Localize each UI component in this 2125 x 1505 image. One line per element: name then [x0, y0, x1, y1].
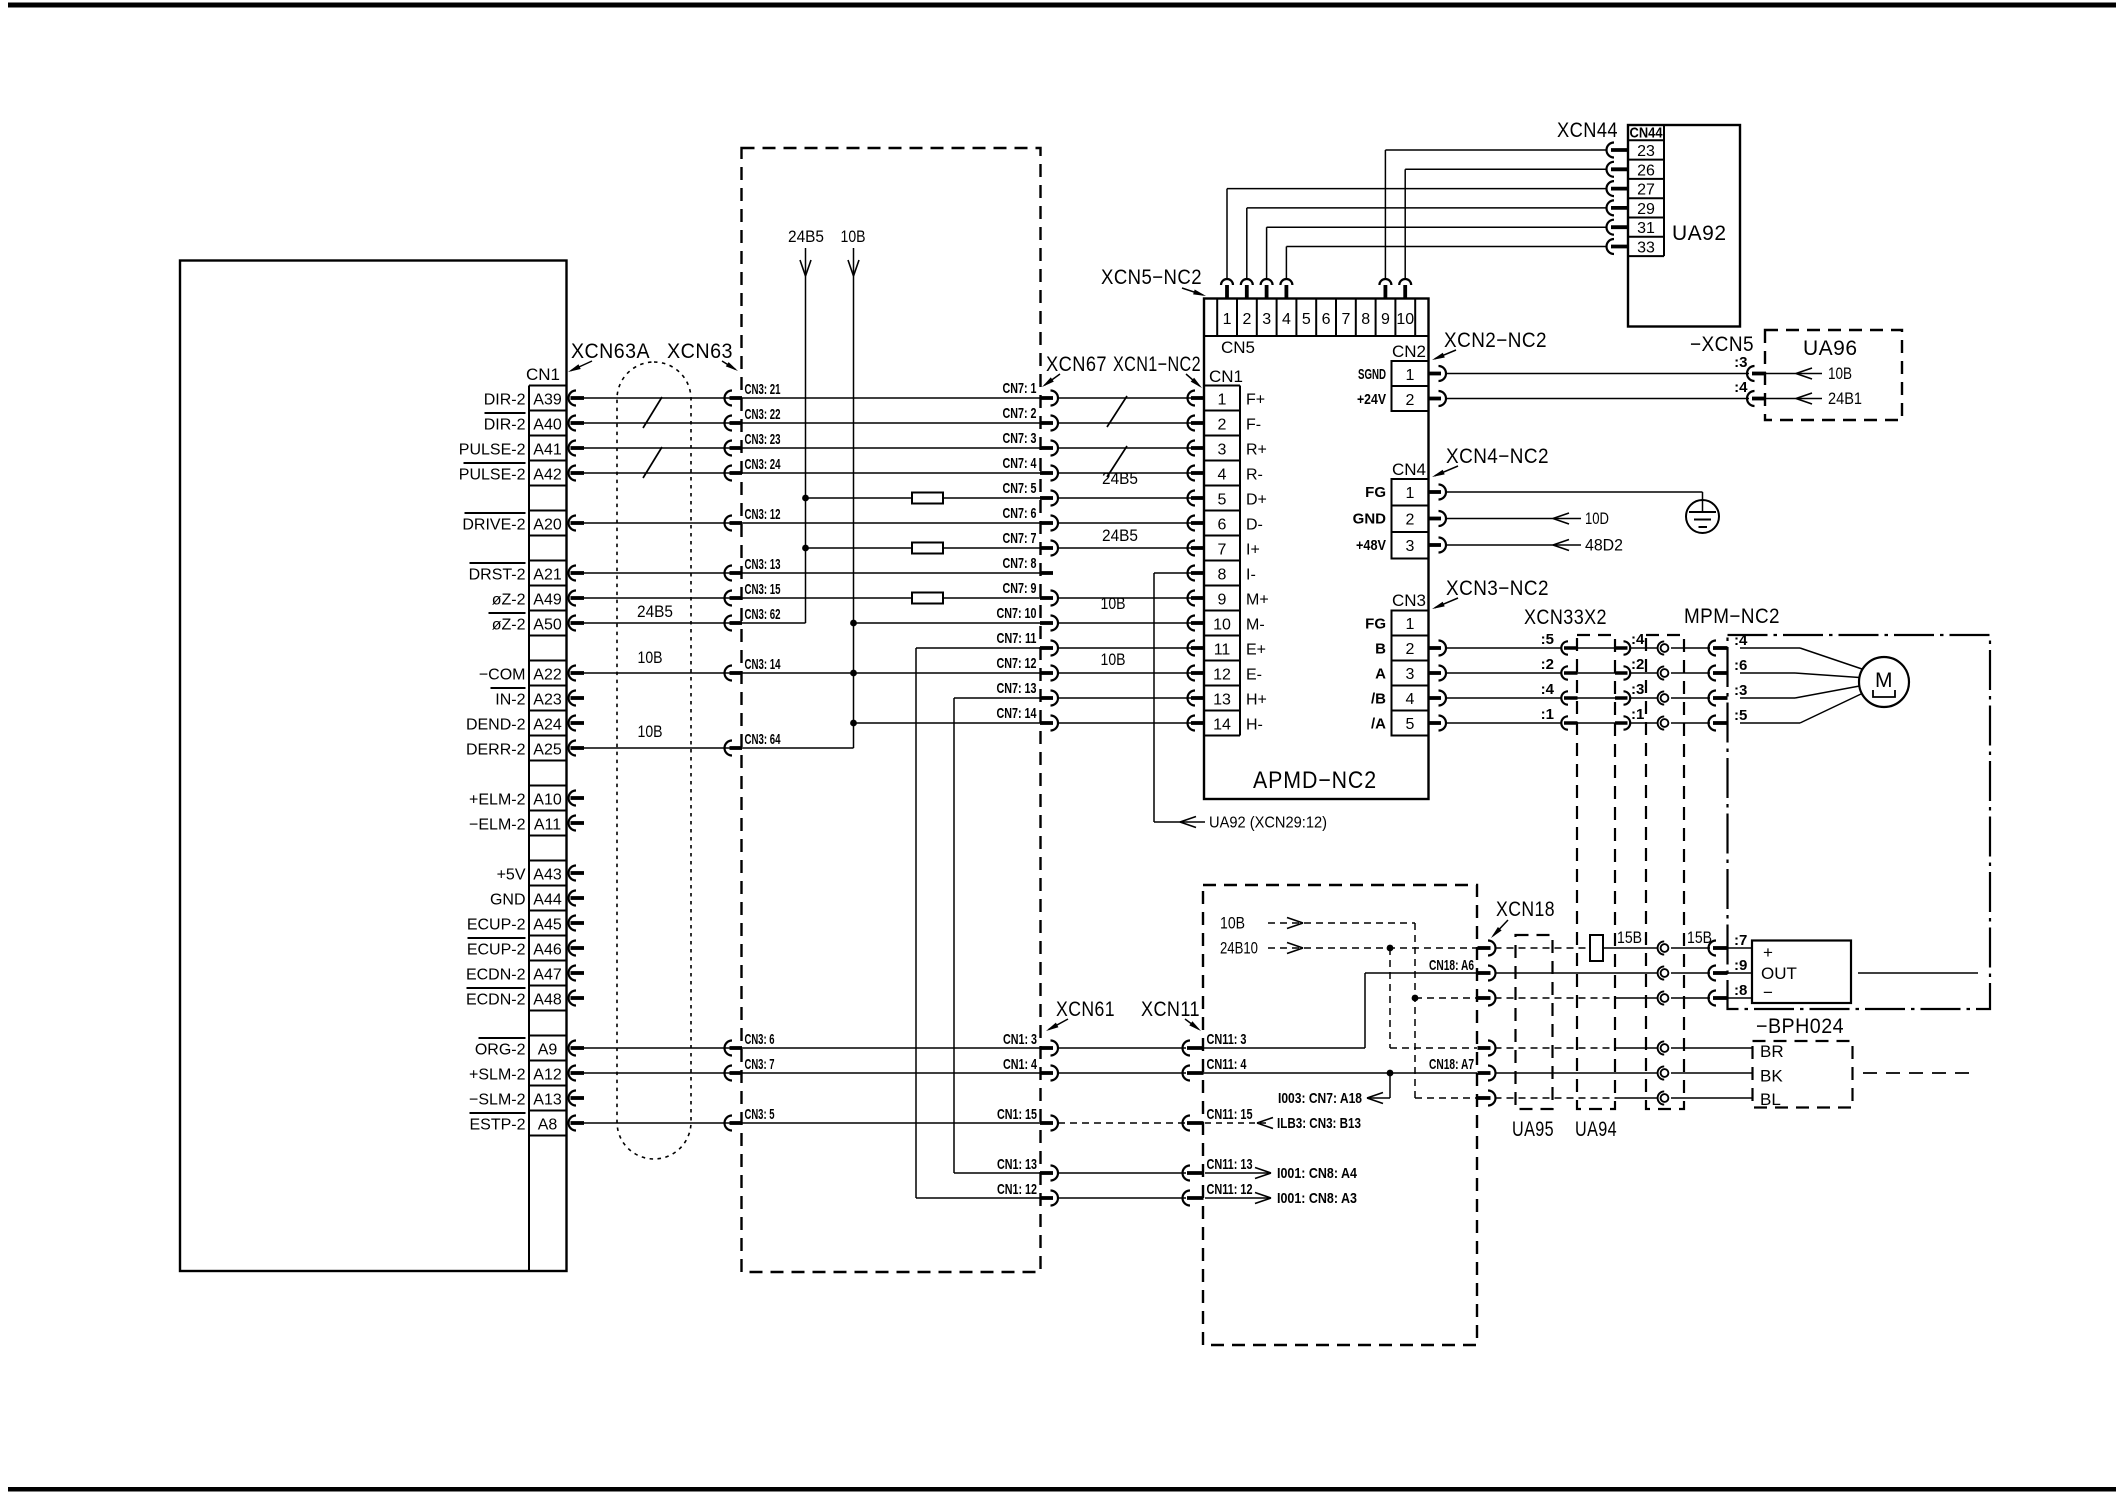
svg-text:M: M [1875, 669, 1893, 692]
svg-text:A42: A42 [533, 467, 562, 484]
svg-text:SGND: SGND [1358, 366, 1386, 383]
svg-text::5: :5 [1541, 631, 1554, 648]
svg-text:6: 6 [1218, 517, 1227, 534]
svg-text:A20: A20 [533, 517, 562, 534]
svg-text::1: :1 [1631, 706, 1644, 723]
svg-text:−XCN5: −XCN5 [1690, 333, 1754, 356]
svg-text:CN11: 15: CN11: 15 [1207, 1106, 1253, 1123]
svg-text:/B: /B [1371, 691, 1386, 708]
svg-text:CN3: 13: CN3: 13 [745, 556, 781, 573]
svg-text:DRST-2: DRST-2 [469, 567, 526, 584]
svg-text:10B: 10B [1220, 915, 1245, 933]
svg-text::4: :4 [1541, 681, 1555, 698]
svg-text:GND: GND [490, 892, 526, 909]
svg-text:24B1: 24B1 [1828, 390, 1862, 408]
svg-text:CN7: 12: CN7: 12 [997, 655, 1037, 672]
svg-text:CN7: 2: CN7: 2 [1003, 405, 1037, 422]
svg-text:A39: A39 [533, 392, 562, 409]
svg-text:10: 10 [1396, 311, 1414, 328]
svg-text:10B: 10B [1101, 595, 1126, 613]
svg-text:4: 4 [1406, 691, 1415, 708]
svg-text:GND: GND [1353, 511, 1387, 528]
svg-text::3: :3 [1734, 354, 1747, 371]
svg-text::3: :3 [1734, 682, 1747, 699]
svg-text:CN7: 5: CN7: 5 [1003, 480, 1037, 497]
svg-text:+24V: +24V [1357, 391, 1386, 408]
svg-text:2: 2 [1242, 311, 1251, 328]
svg-text:1: 1 [1218, 392, 1227, 409]
svg-text:9: 9 [1381, 311, 1390, 328]
svg-text:−BPH024: −BPH024 [1756, 1015, 1844, 1038]
svg-text:CN1: 15: CN1: 15 [997, 1106, 1037, 1123]
svg-text:1: 1 [1406, 367, 1415, 384]
svg-text:A12: A12 [533, 1067, 562, 1084]
svg-text:CN1: 12: CN1: 12 [997, 1181, 1037, 1198]
svg-text:2: 2 [1406, 392, 1415, 409]
svg-text:3: 3 [1406, 538, 1415, 555]
svg-text:H-: H- [1246, 717, 1263, 734]
svg-text:BR: BR [1760, 1042, 1784, 1061]
svg-text:M+: M+ [1246, 592, 1269, 609]
svg-text:M-: M- [1246, 617, 1265, 634]
svg-text:CN3: 7: CN3: 7 [745, 1056, 775, 1073]
svg-text:CN3: 62: CN3: 62 [745, 606, 781, 623]
svg-text:CN7: 8: CN7: 8 [1003, 555, 1037, 572]
svg-text:APMD−NC2: APMD−NC2 [1253, 767, 1377, 794]
svg-text::9: :9 [1734, 957, 1747, 974]
svg-text:ECDN-2: ECDN-2 [466, 967, 526, 984]
svg-text:CN7: 6: CN7: 6 [1003, 505, 1037, 522]
svg-text:CN1: 3: CN1: 3 [1003, 1031, 1037, 1048]
svg-text:UA95: UA95 [1512, 1118, 1554, 1141]
svg-text:A43: A43 [533, 867, 562, 884]
svg-text:H+: H+ [1246, 692, 1267, 709]
svg-text:4: 4 [1218, 467, 1227, 484]
svg-text::1: :1 [1541, 706, 1554, 723]
svg-text:CN3: 6: CN3: 6 [745, 1031, 775, 1048]
svg-text:CN3: 12: CN3: 12 [745, 506, 781, 523]
svg-text:A40: A40 [533, 417, 562, 434]
svg-text:CN1: 4: CN1: 4 [1003, 1056, 1037, 1073]
svg-text:10B: 10B [1828, 365, 1852, 383]
svg-text:6: 6 [1322, 311, 1331, 328]
svg-text:F+: F+ [1246, 392, 1265, 409]
svg-text:24B5: 24B5 [1102, 527, 1138, 545]
svg-text:XCN3−NC2: XCN3−NC2 [1446, 577, 1549, 600]
svg-text:CN18: A6: CN18: A6 [1429, 957, 1474, 974]
svg-text:ECUP-2: ECUP-2 [467, 917, 526, 934]
svg-text:CN3: 5: CN3: 5 [745, 1106, 775, 1123]
svg-text:A13: A13 [533, 1092, 562, 1109]
svg-text:+: + [1763, 943, 1773, 962]
svg-text:+48V: +48V [1356, 537, 1386, 554]
svg-text:8: 8 [1218, 567, 1227, 584]
svg-text:15B: 15B [1617, 929, 1642, 947]
svg-text:CN7: 9: CN7: 9 [1003, 580, 1037, 597]
svg-text:24B10: 24B10 [1220, 940, 1258, 958]
svg-text:A50: A50 [533, 617, 562, 634]
svg-text::8: :8 [1734, 982, 1747, 999]
svg-text:10B: 10B [638, 649, 663, 667]
svg-text::4: :4 [1631, 631, 1645, 648]
svg-text:27: 27 [1637, 182, 1655, 199]
svg-text::7: :7 [1734, 932, 1747, 949]
svg-text:5: 5 [1218, 492, 1227, 509]
svg-text:CN3: 23: CN3: 23 [745, 431, 781, 448]
svg-text:UA92 (XCN29:12): UA92 (XCN29:12) [1209, 815, 1327, 832]
svg-text:CN11: 4: CN11: 4 [1207, 1056, 1247, 1073]
svg-text:XCN4−NC2: XCN4−NC2 [1446, 445, 1549, 468]
svg-text:FG: FG [1365, 484, 1386, 501]
svg-text:12: 12 [1213, 667, 1231, 684]
svg-text:øZ-2: øZ-2 [492, 592, 526, 609]
svg-text:XCN18: XCN18 [1496, 898, 1555, 921]
svg-text:29: 29 [1637, 201, 1655, 218]
svg-text:CN7: 3: CN7: 3 [1003, 430, 1037, 447]
svg-text:A49: A49 [533, 592, 562, 609]
svg-text::3: :3 [1631, 681, 1644, 698]
svg-text::5: :5 [1734, 707, 1747, 724]
svg-text:A22: A22 [533, 667, 562, 684]
svg-text:CN3: CN3 [1392, 591, 1426, 610]
svg-text:øZ-2: øZ-2 [492, 617, 526, 634]
svg-text:ESTP-2: ESTP-2 [469, 1117, 525, 1134]
svg-text:CN4: CN4 [1392, 460, 1426, 479]
svg-text:CN7: 7: CN7: 7 [1003, 530, 1037, 547]
svg-text:CN3: 22: CN3: 22 [745, 406, 781, 423]
svg-text:CN11: 12: CN11: 12 [1207, 1181, 1253, 1198]
svg-text:A25: A25 [533, 742, 562, 759]
svg-text:UA96: UA96 [1803, 337, 1858, 360]
svg-text:24B5: 24B5 [1102, 470, 1138, 488]
svg-text:+SLM-2: +SLM-2 [469, 1067, 526, 1084]
svg-text:CN2: CN2 [1392, 342, 1426, 361]
svg-text:CN1: CN1 [526, 365, 560, 384]
svg-text:XCN44: XCN44 [1557, 119, 1618, 142]
svg-text:XCN63: XCN63 [667, 340, 733, 363]
svg-text:CN3: 14: CN3: 14 [745, 656, 781, 673]
svg-text:5: 5 [1302, 311, 1311, 328]
svg-text:ECDN-2: ECDN-2 [466, 992, 526, 1009]
svg-text:A: A [1375, 666, 1386, 683]
svg-text:I+: I+ [1246, 542, 1260, 559]
svg-text:DIR-2: DIR-2 [484, 392, 526, 409]
svg-text:A45: A45 [533, 917, 562, 934]
svg-text:+5V: +5V [497, 867, 526, 884]
svg-text:7: 7 [1341, 311, 1350, 328]
svg-text:24B5: 24B5 [637, 603, 673, 621]
svg-text:ECUP-2: ECUP-2 [467, 942, 526, 959]
svg-text:PULSE-2: PULSE-2 [459, 467, 526, 484]
svg-text:UA94: UA94 [1575, 1118, 1617, 1141]
svg-text:10D: 10D [1585, 510, 1609, 528]
svg-text:D-: D- [1246, 517, 1263, 534]
svg-text:XCN2−NC2: XCN2−NC2 [1444, 329, 1547, 352]
svg-text:A44: A44 [533, 892, 562, 909]
svg-text:A8: A8 [538, 1117, 558, 1134]
svg-text:−ELM-2: −ELM-2 [469, 817, 526, 834]
svg-text:A10: A10 [533, 792, 562, 809]
svg-text::4: :4 [1734, 379, 1748, 396]
svg-text:A24: A24 [533, 717, 562, 734]
svg-text:FG: FG [1365, 616, 1386, 633]
svg-text:A46: A46 [533, 942, 562, 959]
svg-text:10B: 10B [841, 228, 866, 246]
svg-text:CN11: 13: CN11: 13 [1207, 1156, 1253, 1173]
svg-text:A11: A11 [534, 817, 561, 834]
svg-text:5: 5 [1406, 716, 1415, 733]
svg-text:XCN11: XCN11 [1141, 998, 1200, 1021]
svg-text:2: 2 [1218, 417, 1227, 434]
svg-text:UA92: UA92 [1672, 222, 1727, 245]
svg-text:A21: A21 [533, 567, 562, 584]
svg-text:10B: 10B [1101, 651, 1126, 669]
svg-text:33: 33 [1637, 240, 1655, 257]
svg-text:CN7: 14: CN7: 14 [997, 705, 1037, 722]
svg-text:+ELM-2: +ELM-2 [469, 792, 526, 809]
svg-text:XCN61: XCN61 [1056, 998, 1115, 1021]
svg-text:F-: F- [1246, 417, 1261, 434]
svg-text:E+: E+ [1246, 642, 1266, 659]
svg-text:XCN67: XCN67 [1046, 353, 1107, 376]
svg-text:I-: I- [1246, 567, 1256, 584]
svg-text:CN3: 24: CN3: 24 [745, 456, 781, 473]
svg-text:R+: R+ [1246, 442, 1267, 459]
svg-text:ILB3: CN3: B13: ILB3: CN3: B13 [1277, 1115, 1361, 1132]
svg-text:14: 14 [1213, 717, 1231, 734]
svg-text:DRIVE-2: DRIVE-2 [462, 517, 525, 534]
svg-text:3: 3 [1218, 442, 1227, 459]
svg-text:1: 1 [1406, 616, 1415, 633]
svg-text:CN7: 4: CN7: 4 [1003, 455, 1037, 472]
svg-text:I001: CN8: A4: I001: CN8: A4 [1277, 1165, 1358, 1182]
svg-text:E-: E- [1246, 667, 1262, 684]
svg-text:A48: A48 [533, 992, 562, 1009]
svg-text:DEND-2: DEND-2 [466, 717, 526, 734]
svg-text:XCN63A: XCN63A [571, 340, 650, 363]
svg-text:BL: BL [1760, 1090, 1781, 1109]
svg-text:−SLM-2: −SLM-2 [469, 1092, 526, 1109]
svg-text:8: 8 [1361, 311, 1370, 328]
svg-text:A9: A9 [538, 1042, 558, 1059]
svg-text:24B5: 24B5 [788, 228, 824, 246]
svg-text:CN7: 1: CN7: 1 [1003, 380, 1037, 397]
svg-text:PULSE-2: PULSE-2 [459, 442, 526, 459]
svg-text:I001: CN8: A3: I001: CN8: A3 [1277, 1190, 1357, 1207]
svg-text:IN-2: IN-2 [495, 692, 525, 709]
svg-text:CN1: 13: CN1: 13 [997, 1156, 1037, 1173]
svg-text:10: 10 [1213, 617, 1231, 634]
svg-text:DERR-2: DERR-2 [466, 742, 526, 759]
svg-text:48D2: 48D2 [1585, 537, 1623, 555]
svg-text:9: 9 [1218, 592, 1227, 609]
svg-text:CN3: 15: CN3: 15 [745, 581, 781, 598]
svg-text:B: B [1375, 641, 1386, 658]
svg-text:4: 4 [1282, 311, 1291, 328]
svg-text:13: 13 [1213, 692, 1231, 709]
svg-text:2: 2 [1406, 512, 1415, 529]
svg-text:31: 31 [1637, 220, 1655, 237]
svg-text:−COM: −COM [479, 667, 526, 684]
svg-text:CN7: 10: CN7: 10 [997, 605, 1037, 622]
svg-text:DIR-2: DIR-2 [484, 417, 526, 434]
svg-text:CN5: CN5 [1221, 338, 1255, 357]
svg-text:XCN33X2: XCN33X2 [1524, 606, 1607, 629]
svg-text:1: 1 [1406, 485, 1415, 502]
svg-text:10B: 10B [638, 723, 663, 741]
svg-text:CN11: 3: CN11: 3 [1207, 1031, 1247, 1048]
svg-text:D+: D+ [1246, 492, 1267, 509]
svg-text:/A: /A [1371, 716, 1386, 733]
svg-text:CN7: 13: CN7: 13 [997, 680, 1037, 697]
svg-text:XCN5−NC2: XCN5−NC2 [1101, 266, 1202, 289]
svg-text:CN44: CN44 [1630, 125, 1664, 142]
svg-text:MPM−NC2: MPM−NC2 [1684, 605, 1780, 628]
svg-text:CN3: 64: CN3: 64 [745, 731, 781, 748]
svg-text:7: 7 [1218, 542, 1227, 559]
svg-text:CN3: 21: CN3: 21 [745, 381, 781, 398]
svg-text:26: 26 [1637, 162, 1655, 179]
svg-text:CN7: 11: CN7: 11 [997, 630, 1037, 647]
svg-text::2: :2 [1631, 656, 1644, 673]
svg-text:XCN1−NC2: XCN1−NC2 [1113, 353, 1201, 376]
svg-text::2: :2 [1541, 656, 1554, 673]
svg-text:A23: A23 [533, 692, 562, 709]
svg-text:I003: CN7: A18: I003: CN7: A18 [1278, 1090, 1362, 1107]
svg-text:OUT: OUT [1761, 964, 1797, 983]
svg-text:CN1: CN1 [1209, 367, 1243, 386]
svg-text:23: 23 [1637, 143, 1655, 160]
svg-text:BK: BK [1760, 1067, 1783, 1086]
svg-text:3: 3 [1262, 311, 1271, 328]
svg-text:A41: A41 [533, 442, 562, 459]
svg-text:3: 3 [1406, 666, 1415, 683]
svg-text:A47: A47 [533, 967, 562, 984]
svg-text:2: 2 [1406, 641, 1415, 658]
svg-text:−: − [1763, 983, 1773, 1002]
svg-text::6: :6 [1734, 657, 1747, 674]
svg-text:CN18: A7: CN18: A7 [1429, 1056, 1474, 1073]
svg-text:11: 11 [1214, 642, 1231, 659]
svg-text:1: 1 [1223, 311, 1232, 328]
svg-text:ORG-2: ORG-2 [475, 1042, 526, 1059]
svg-text:R-: R- [1246, 467, 1263, 484]
